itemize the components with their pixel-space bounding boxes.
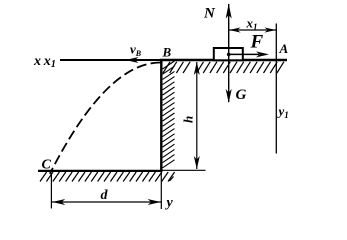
upper ground hatching — [163, 62, 284, 73]
svg-text:A: A — [279, 41, 289, 56]
y1 axis vertical line through A — [275, 24, 277, 154]
x1 dimension right arrow — [264, 27, 276, 32]
d dimension left arrow — [52, 199, 65, 205]
lower ground level extension (thin, for h dimension) — [162, 169, 206, 171]
svg-text:N: N — [203, 6, 216, 22]
N-G action line through block — [228, 4, 230, 102]
svg-text:B: B — [162, 45, 172, 60]
cliff wall line — [160, 59, 162, 172]
h dimension bottom arrow — [194, 156, 200, 169]
x1 dimension left arrow — [229, 27, 241, 32]
svg-text:h: h — [181, 116, 196, 123]
d dimension left extension line — [50, 173, 52, 209]
h dimension top arrow — [194, 62, 200, 75]
force G arrowhead (down) — [226, 89, 232, 103]
lower ground hatching — [40, 172, 175, 182]
svg-text:F: F — [250, 32, 264, 53]
upper ground line — [160, 59, 287, 61]
d dimension right arrow — [148, 199, 161, 205]
x-axis line (left, toward x x1 labels) — [60, 59, 161, 61]
y axis extension below wall — [160, 172, 162, 209]
svg-text:y: y — [165, 196, 174, 211]
junction dot at block centre — [227, 53, 231, 57]
force N arrowhead (up) — [226, 4, 232, 19]
block on the upper ground — [214, 48, 243, 60]
x1 dimension line — [229, 29, 277, 31]
force F line — [229, 53, 259, 55]
force F arrowhead (right) — [256, 51, 269, 57]
lower ground line — [38, 170, 162, 172]
svg-text:G: G — [236, 87, 247, 103]
h dimension line — [196, 62, 198, 169]
velocity vector vB (arrowhead pointing left on axis) — [126, 57, 139, 63]
dashed projectile trajectory from B to C — [50, 63, 161, 174]
cliff wall hatching — [163, 61, 175, 168]
d dimension line — [52, 201, 161, 203]
svg-text:d: d — [101, 188, 109, 203]
